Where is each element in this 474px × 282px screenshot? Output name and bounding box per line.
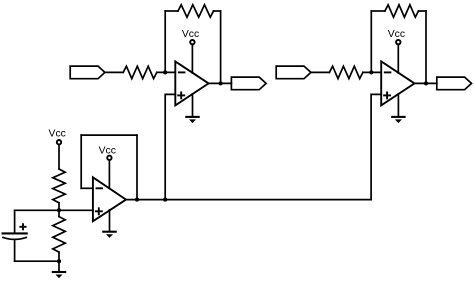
U3 inverting input marker	[97, 187, 103, 189]
op-amp U3 (oscillator)	[93, 177, 126, 221]
wire	[425, 11, 427, 83]
Vcc label and pin of U2	[388, 29, 405, 44]
wire	[108, 160, 110, 188]
port P1 (stage-1 input)	[70, 66, 105, 79]
port P3 (stage-2 input)	[276, 66, 311, 79]
wire	[397, 44, 399, 73]
node stage-1 inverting input junction	[163, 70, 167, 74]
wire	[165, 10, 178, 12]
wire	[80, 135, 82, 188]
U1 inverting input marker	[179, 71, 185, 73]
svg-text:Vcc: Vcc	[99, 145, 116, 156]
wire	[109, 210, 111, 231]
svg-text:Vcc: Vcc	[182, 29, 199, 40]
wire	[192, 94, 194, 116]
wire	[311, 71, 330, 73]
U1 non-inverting input marker	[178, 92, 184, 98]
wire	[58, 210, 60, 216]
resistor R5 (upper divider)	[53, 169, 65, 203]
wire	[165, 94, 175, 199]
Vcc label and pin of U3	[99, 145, 116, 160]
resistor R4 (stage-2 feedback)	[385, 5, 419, 17]
wire	[14, 210, 16, 232]
resistor R3 (stage-2 series input)	[329, 66, 363, 78]
port P2 (stage-1 output)	[231, 77, 266, 90]
capacitor C1 (polarized)	[3, 233, 27, 239]
node U1 non-inverting tap	[163, 198, 167, 202]
wire	[136, 135, 138, 200]
Vcc label and pin of divider	[49, 129, 66, 145]
wire	[81, 134, 137, 136]
wire	[397, 94, 399, 116]
wire	[58, 144, 60, 169]
wire	[105, 71, 123, 73]
wire	[126, 199, 371, 201]
wire	[58, 261, 60, 271]
svg-text:Vcc: Vcc	[49, 129, 66, 140]
ground of U2	[392, 117, 404, 123]
wire	[81, 187, 93, 189]
node divider bottom junction	[57, 259, 61, 263]
op-amp U1 (stage-1)	[175, 61, 208, 105]
ground of U3	[103, 232, 115, 238]
Vcc label and pin of U1	[182, 29, 199, 44]
U3 non-inverting input marker	[96, 208, 102, 214]
wire	[15, 209, 93, 211]
wire	[157, 71, 176, 73]
wire	[58, 252, 60, 261]
wire	[58, 203, 60, 211]
wire	[220, 11, 222, 83]
svg-text:Vcc: Vcc	[388, 29, 405, 40]
wire	[371, 10, 385, 12]
C1 polarity marker	[20, 224, 25, 229]
wire	[191, 44, 193, 73]
wire	[415, 82, 437, 84]
ground of U1	[186, 117, 198, 123]
port P4 (stage-2 output)	[437, 77, 472, 90]
wire	[363, 71, 381, 73]
op-amp U2 (stage-2)	[381, 61, 414, 105]
node stage-2 output junction	[424, 81, 428, 85]
ground of divider	[53, 272, 65, 278]
wire	[209, 82, 232, 84]
wire	[371, 94, 381, 199]
wire	[15, 260, 59, 262]
node U3 feedback/output junction	[135, 198, 139, 202]
wire	[370, 11, 372, 72]
node stage-2 inverting input junction	[369, 70, 373, 74]
node stage-1 output junction	[219, 81, 223, 85]
resistor R6 (lower divider)	[53, 217, 65, 253]
resistor R2 (stage-1 feedback)	[178, 5, 214, 17]
wire	[164, 11, 166, 72]
U2 non-inverting input marker	[384, 92, 390, 98]
wire	[419, 10, 427, 12]
wire	[214, 10, 221, 12]
resistor R1 (stage-1 series input)	[123, 66, 157, 78]
node divider mid-point	[57, 208, 61, 212]
U2 inverting input marker	[385, 71, 391, 73]
wire	[14, 239, 16, 261]
